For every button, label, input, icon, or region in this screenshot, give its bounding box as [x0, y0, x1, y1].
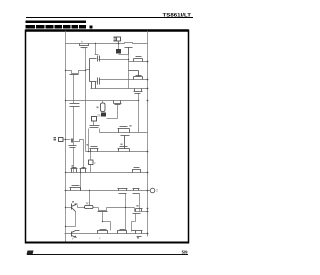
wire jog FS1 to x128.3 [119, 54, 129, 56]
title text row2 [26, 25, 93, 29]
wire vertical x73 lower [73, 107, 75, 173]
pad square node 1a [117, 37, 121, 41]
wire vertical x131.4 [131, 222, 133, 232]
wire vertical x80.5 [80, 173, 82, 191]
wire mirror bus y88 [91, 88, 148, 90]
wire bus y171.8 [66, 172, 148, 174]
wire to Q1 base [66, 207, 72, 209]
transistor Q_j2 on y189.8 [133, 189, 140, 194]
wire vertical x102 T9 gate drop [102, 212, 104, 222]
schematic frame border [26, 30, 189, 244]
transistor Q_r2 right stack lower [134, 76, 143, 80]
transistor Q_9 gate bar [98, 211, 108, 213]
transistor Q_h at mirror bus [134, 89, 143, 94]
wire resistor Rv top lead [102, 101, 104, 104]
pad square node 1b [59, 138, 64, 142]
svg-text:2b: 2b [97, 114, 101, 118]
wire y221.2 jog [132, 221, 136, 223]
label 1a [114, 37, 117, 39]
svg-text:R1: R1 [86, 202, 90, 206]
transistor Q_2 bjt [72, 231, 80, 238]
transistor Q_2 arrow [74, 236, 77, 238]
transistor Q_d on y150.8 [90, 147, 99, 152]
junction dots [65, 43, 149, 235]
wire T9 dip [99, 208, 107, 211]
transistor Q_11 on ground rail [118, 230, 127, 234]
transistor Q_12 at ground [132, 231, 143, 237]
wire input 1b y139.5 [64, 139, 71, 141]
wire y60.9 to right bus [129, 61, 148, 63]
transistor Q_j1 on y189.8 [118, 189, 128, 194]
footer rule [27, 254, 188, 255]
transistor Q_1 arrow [75, 204, 78, 206]
wire vertical x128.3 [128, 55, 130, 89]
transistor input pair M2 lower [92, 78, 100, 89]
transistor Q_13 on y211.3 [133, 209, 143, 214]
resistor Rv vertical [101, 103, 106, 112]
capacitor C2 plates [69, 146, 77, 148]
ST logo [27, 251, 34, 255]
wire y220.8 [103, 221, 111, 223]
wire vertical x125.2 [125, 194, 127, 231]
transistor Q_A on y131.8 [118, 127, 130, 133]
label specks near transistors [72, 107, 140, 239]
transistor Q_B on y150.8 [118, 147, 130, 152]
wire bus y100.3 [66, 100, 139, 102]
wire vertical x75.7 Q1 emitter [75, 212, 77, 227]
wire vertical x135.3 gate drop [135, 214, 137, 222]
svg-text:5/9: 5/9 [182, 250, 188, 255]
wire bus y189.8 [65, 190, 148, 192]
capacitor C1 plates [70, 104, 80, 107]
wire cap C3 right leg [99, 129, 101, 133]
wire vertical x94.8 gate feed [95, 44, 97, 55]
transistor Q_b dip wire [66, 71, 86, 74]
wire gate bar feed y54.6 [95, 54, 99, 56]
pad square node 2b [92, 117, 97, 122]
wire vertical x85 [85, 48, 87, 152]
wire vertical x73 upper [73, 75, 75, 104]
wire cap C3 left leg [88, 129, 90, 152]
title text row1 [26, 21, 87, 24]
filled square FS1 [116, 49, 121, 54]
wire bus y131.8 [100, 132, 148, 134]
transistor Q_10 on ground rail [98, 230, 108, 234]
resistor R1 [85, 206, 94, 209]
header rule [26, 17, 193, 18]
transistor Q_6 input 1b [72, 139, 73, 143]
wire drain line y79.4 [100, 79, 148, 81]
gate link bar [121, 136, 130, 149]
transistor Q_7b staple [80, 168, 87, 173]
wire y225.9 [66, 226, 76, 228]
wire y118.1 [107, 118, 118, 120]
gate link Q_r pair [129, 71, 139, 77]
transistor Q_r1 right stack upper [134, 57, 143, 62]
transistor Q_1 bjt [72, 204, 76, 212]
transistor Q_b gate bar [70, 74, 79, 76]
filled square FS2 [101, 113, 106, 117]
transistor Q_i NMOS at y100 [114, 101, 122, 105]
wire y211.3 [135, 211, 148, 213]
wire ground rail y233.4 [65, 233, 148, 235]
wire box B1 leads [90, 152, 92, 173]
wire pad stem [93, 122, 95, 126]
component box B1 [89, 160, 94, 165]
wire drain line y58.9 [99, 59, 129, 61]
transistor Q_bump gate bar [125, 48, 133, 55]
wire vertical x138.5 [138, 94, 140, 133]
wire T6 out [74, 140, 84, 142]
pin circle P2 output [150, 188, 155, 193]
transistor Q_g on y171.8 [133, 168, 141, 173]
capacitor C3 plates [90, 126, 100, 128]
wire R1 to T9 [93, 207, 99, 209]
wire jog down [134, 208, 136, 212]
wire NMOS gate lead [117, 105, 119, 119]
wire vertical left bus x65 [65, 31, 67, 242]
wire vertical x118.7 node 1a drop [118, 42, 120, 51]
wire vertical x110.5 bottom [110, 222, 112, 231]
wire vertical right bus x147.5 [147, 31, 149, 237]
wire pin stub [148, 190, 151, 192]
transistor input pair M1 upper [90, 56, 100, 82]
svg-text:2: 2 [156, 189, 158, 193]
label 1b [54, 137, 57, 139]
wire vertical x89.7 [89, 191, 91, 208]
transistor Q_8 above y189.8 [70, 186, 81, 191]
transistor Q_a on top rail [80, 44, 89, 49]
wire top supply rail y43.4 with pmos bump [66, 43, 148, 44]
wire y69.7 to input pair [86, 69, 90, 71]
wire vertical x138.8 [139, 194, 141, 212]
wire bus y150.8 [86, 151, 148, 153]
wire Q1 collector link [78, 205, 85, 208]
wire vertical x83 [83, 140, 85, 169]
transistor Q_7a staple [71, 168, 78, 173]
wire bus y207.6 right [107, 207, 135, 209]
